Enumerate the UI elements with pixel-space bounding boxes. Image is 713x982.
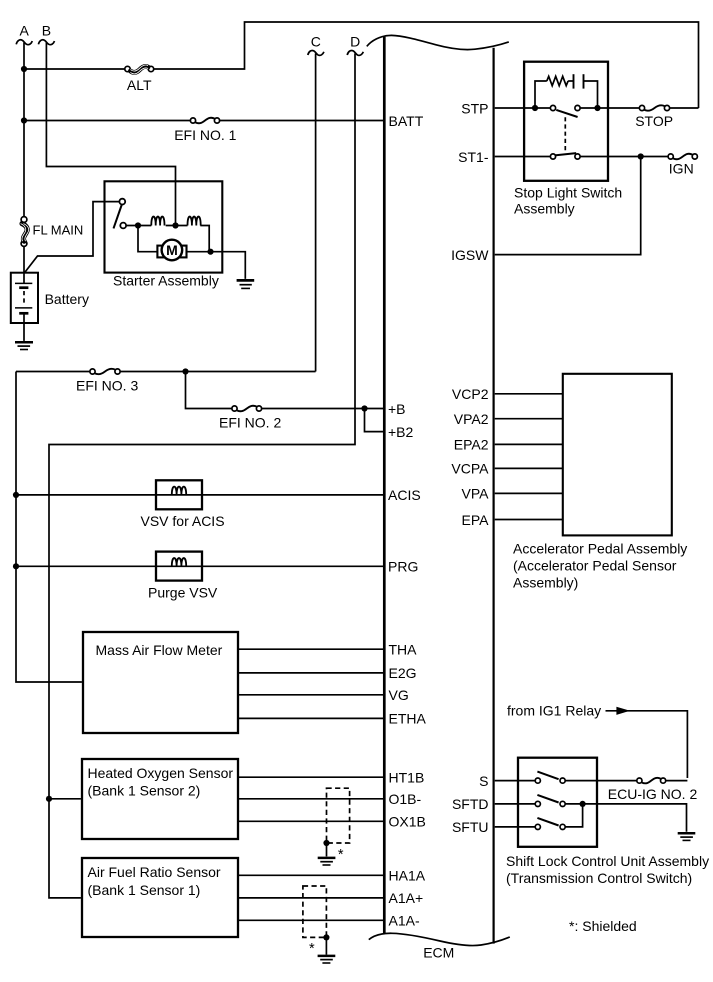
solenoid coil 1: [151, 217, 164, 226]
connector break C: [308, 50, 324, 55]
svg-text:IGN: IGN: [669, 161, 694, 177]
svg-text:Accelerator Pedal Assembly: Accelerator Pedal Assembly: [513, 541, 687, 557]
wire STOP fuse to right rail: [670, 107, 699, 109]
svg-text:ST1-: ST1-: [458, 149, 489, 165]
resistor-capacitor branch: [535, 81, 547, 108]
resistor R: [547, 76, 568, 85]
shield 2 junction: [323, 934, 329, 940]
fuse ECU-IG NO. 2: [637, 778, 642, 783]
svg-text:Shift Lock Control Unit Assemb: Shift Lock Control Unit Assembly: [506, 853, 709, 869]
junction coil-B: [172, 222, 178, 228]
wire ALT left: [24, 68, 125, 70]
svg-text:EFI NO. 1: EFI NO. 1: [174, 127, 236, 143]
wire ST1-: [495, 156, 551, 158]
motor M1: [157, 246, 186, 258]
svg-text:THA: THA: [389, 642, 418, 658]
svg-text:A1A-: A1A-: [389, 913, 420, 929]
svg-text:B: B: [42, 23, 51, 39]
svg-text:*: *: [338, 847, 344, 863]
svg-text:S: S: [479, 773, 488, 789]
wire EPA2: [495, 443, 562, 445]
junction A-ALT: [21, 66, 27, 72]
wire coil2 to motor line: [200, 226, 209, 252]
svg-text:PRG: PRG: [388, 559, 418, 575]
mass air flow meter box: [83, 632, 238, 733]
air fuel ratio sensor box: [82, 858, 238, 937]
wire VSV rail: [16, 372, 82, 683]
wire SFTU to SFTD: [565, 806, 582, 827]
svg-text:HT1B: HT1B: [389, 770, 425, 786]
wire EPA: [495, 519, 562, 521]
svg-text:VSV for ACIS: VSV for ACIS: [141, 513, 225, 529]
wire SFTU: [495, 826, 536, 828]
svg-text:VCP2: VCP2: [452, 386, 489, 402]
ECM bottom tear: [369, 933, 510, 945]
wire between coils: [166, 225, 188, 227]
fuse EFI NO. 1: [190, 118, 195, 123]
shield 2 dashed: [303, 886, 327, 937]
ECM top tear: [367, 35, 509, 49]
svg-text:EPA: EPA: [462, 512, 490, 528]
wire A1A+: [238, 897, 383, 899]
wire STP: [495, 107, 551, 109]
ECM right edge: [493, 48, 495, 944]
wire STP to STOP fuse: [580, 107, 639, 109]
wire A1A-: [238, 919, 383, 921]
svg-text:HA1A: HA1A: [389, 868, 426, 884]
wire ACIS: [16, 494, 383, 496]
purge VSV: [156, 552, 202, 581]
wire VPA2: [495, 418, 562, 420]
svg-text:STOP: STOP: [635, 113, 673, 129]
junction VSV-ACIS: [13, 492, 19, 498]
wire S: [495, 780, 536, 782]
wire PRG: [16, 565, 383, 567]
wire rail A vertical: [23, 43, 25, 217]
svg-text:IGSW: IGSW: [451, 247, 489, 263]
ground shield 1: [318, 857, 336, 860]
wire SFTD: [495, 803, 536, 805]
wire E2G: [238, 672, 383, 674]
svg-text:VPA2: VPA2: [454, 411, 489, 427]
accelerator pedal assembly box: [563, 374, 672, 536]
connector break D: [347, 50, 363, 55]
wire EFI NO.2 to +B: [262, 408, 384, 410]
wire EFI NO.2 branch: [186, 372, 232, 409]
shield 2 ground wire: [325, 937, 327, 954]
battery positive wire: [25, 202, 120, 273]
wire solenoid: [126, 225, 151, 227]
wire motor right to ground: [187, 252, 246, 279]
svg-text:from IG1 Relay: from IG1 Relay: [507, 703, 601, 719]
svg-text:C: C: [311, 33, 321, 49]
svg-text:A: A: [20, 23, 30, 39]
svg-text:ALT: ALT: [127, 77, 152, 93]
svg-text:SFTU: SFTU: [452, 819, 489, 835]
junction coil-switch: [135, 222, 141, 228]
svg-text:Starter Assembly: Starter Assembly: [113, 273, 219, 289]
wire EFI NO.3 left: [16, 371, 90, 373]
wire ALT right to top rail and right rail: [154, 22, 699, 108]
shield 1 dashed: [327, 788, 350, 843]
wire VG: [238, 694, 383, 696]
svg-text:O1B-: O1B-: [389, 791, 422, 807]
wire VCPA: [495, 467, 562, 469]
wire fuse to IG1 corner: [666, 780, 688, 782]
junction A-EFI1: [21, 117, 27, 123]
wire rail D: [49, 54, 355, 898]
junction motor-coil: [207, 249, 213, 255]
svg-text:Battery: Battery: [45, 291, 89, 307]
svg-text:FL MAIN: FL MAIN: [33, 223, 84, 238]
wire resistor to capacitor: [568, 80, 573, 82]
svg-text:D: D: [350, 33, 360, 49]
fuse EFI NO. 3: [90, 369, 95, 374]
junction RC right: [594, 105, 600, 111]
fuse EFI NO. 2: [232, 406, 237, 411]
svg-text:ECM: ECM: [423, 945, 454, 961]
wire ETHA: [238, 717, 383, 719]
switch STP: [550, 105, 555, 110]
wire HT1B: [238, 776, 383, 778]
switch S: [535, 778, 540, 783]
svg-text:OX1B: OX1B: [389, 814, 426, 830]
svg-text:Stop Light Switch: Stop Light Switch: [514, 184, 622, 200]
wire S to ECU-IG fuse: [565, 780, 637, 782]
svg-text:VCPA: VCPA: [451, 461, 489, 477]
svg-text:ECU-IG NO. 2: ECU-IG NO. 2: [608, 786, 698, 802]
starter switch: [119, 199, 125, 205]
junction SFTD-SFTU: [580, 801, 586, 807]
svg-text:EPA2: EPA2: [454, 437, 489, 453]
fuse STOP: [639, 105, 644, 110]
svg-text:+B2: +B2: [388, 424, 414, 440]
svg-text:BATT: BATT: [389, 113, 424, 129]
wire O1B-: [238, 798, 383, 800]
solenoid coil 2: [188, 217, 201, 226]
svg-text:ETHA: ETHA: [389, 711, 427, 727]
shield 1 ground wire: [326, 843, 328, 856]
stop light switch assembly box: [524, 62, 608, 181]
svg-text:EFI NO. 3: EFI NO. 3: [76, 378, 138, 394]
svg-text:M: M: [166, 242, 178, 258]
wire SFTD out to ground: [565, 804, 686, 832]
junction +B: [361, 405, 367, 411]
fusible link ALT: [125, 66, 130, 71]
mechanical link dashed: [564, 117, 566, 151]
svg-text:*: Shielded: *: Shielded: [569, 918, 637, 934]
junction VSV-PRG: [13, 563, 19, 569]
ECM left edge: [383, 37, 386, 934]
svg-text:Air Fuel Ratio Sensor: Air Fuel Ratio Sensor: [88, 864, 221, 880]
fusible link FL MAIN: [21, 217, 27, 223]
junction EFI3-EFI2: [182, 368, 188, 374]
ground shield 2: [318, 955, 336, 958]
starter assembly box: [105, 181, 223, 272]
svg-text:A1A+: A1A+: [389, 890, 424, 906]
wire ST1 to IGN fuse: [580, 156, 668, 158]
junction D-HOS: [46, 796, 52, 802]
ground battery: [15, 341, 33, 344]
VSV for ACIS: [156, 480, 202, 509]
svg-text:(Transmission Control Switch): (Transmission Control Switch): [506, 870, 692, 886]
wire IGSW: [495, 157, 641, 255]
svg-text:EFI NO. 2: EFI NO. 2: [219, 415, 281, 431]
wire rail A lower segment: [23, 246, 25, 272]
svg-text:Heated Oxygen Sensor: Heated Oxygen Sensor: [88, 765, 234, 781]
wire capacitor to STP: [584, 81, 598, 108]
svg-text:(Bank 1 Sensor 1): (Bank 1 Sensor 1): [88, 882, 201, 898]
wire HA1A: [238, 874, 383, 876]
arrowhead: [616, 707, 630, 715]
connector break B: [38, 40, 54, 45]
connector break A: [16, 40, 32, 45]
svg-text:SFTD: SFTD: [452, 796, 489, 812]
junction RC left: [532, 105, 538, 111]
switch SFTD: [535, 801, 540, 806]
shield 1 junction: [323, 840, 329, 846]
battery: [11, 273, 38, 323]
svg-text:ACIS: ACIS: [388, 487, 421, 503]
svg-text:Mass Air Flow Meter: Mass Air Flow Meter: [96, 642, 223, 658]
svg-text:Assembly: Assembly: [514, 200, 575, 216]
svg-text:VPA: VPA: [462, 486, 490, 502]
wire EFI NO.3 right to C rail: [120, 371, 316, 373]
svg-text:(Accelerator Pedal Sensor: (Accelerator Pedal Sensor: [513, 558, 677, 574]
wire rail B: [46, 43, 175, 223]
wire VCP2: [495, 393, 562, 395]
wire THA: [238, 648, 383, 650]
junction ST1-IGSW: [638, 153, 644, 159]
svg-text:VG: VG: [389, 687, 409, 703]
switch SFTU: [535, 824, 540, 829]
switch ST1: [550, 154, 555, 159]
svg-text:+B: +B: [388, 401, 406, 417]
wire rail C: [315, 54, 317, 372]
ground ECU-IG: [678, 832, 696, 835]
svg-text:E2G: E2G: [389, 665, 417, 681]
heated oxygen sensor box: [82, 759, 238, 839]
wire OX1B: [238, 820, 383, 822]
svg-text:(Bank 1 Sensor 2): (Bank 1 Sensor 2): [88, 783, 201, 799]
wire EFI NO.1 left: [24, 120, 190, 122]
svg-text:Purge VSV: Purge VSV: [148, 585, 218, 601]
svg-text:*: *: [309, 941, 315, 957]
svg-text:Assembly): Assembly): [513, 575, 578, 591]
wire EFI NO.1 to ECM BATT: [220, 120, 384, 122]
wire VPA: [495, 492, 562, 494]
wire D to heated oxygen sensor: [49, 798, 81, 800]
fuse IGN: [668, 154, 673, 159]
shift lock control unit box: [518, 758, 597, 847]
wire +B2 jumper: [365, 409, 384, 432]
ground starter: [237, 279, 255, 282]
capacitor C: [573, 74, 575, 88]
wire motor left: [138, 226, 157, 252]
wire from IG1 relay: [606, 711, 688, 778]
svg-text:STP: STP: [461, 100, 488, 116]
